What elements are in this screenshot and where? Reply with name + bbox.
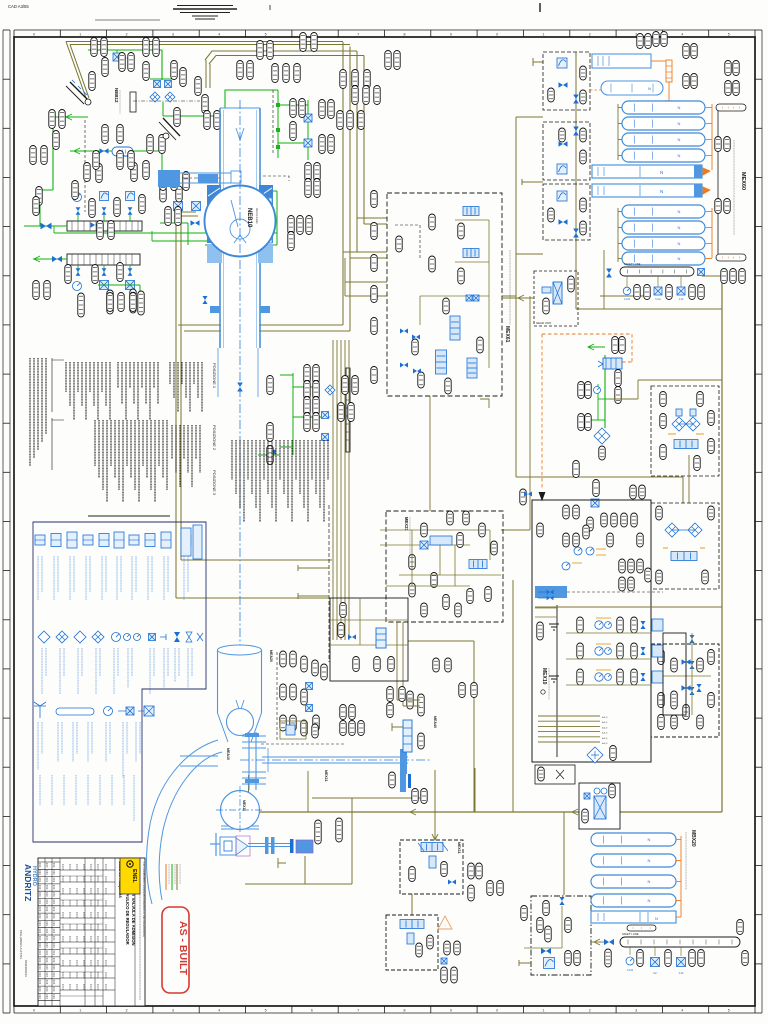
instrument bubble	[612, 337, 618, 354]
instrument bubble	[283, 64, 289, 83]
caption text	[548, 668, 550, 700]
wire black manifold link	[717, 110, 719, 254]
legend text	[73, 556, 75, 592]
wire olive row	[566, 684, 652, 686]
instrument bubble	[577, 669, 583, 685]
rev text	[39, 863, 41, 868]
wire olive left drop	[178, 324, 343, 326]
instrument bubble	[118, 293, 124, 312]
instrument bubble	[445, 658, 451, 672]
instrument bubble	[573, 533, 579, 547]
rev text	[46, 907, 48, 912]
flange hatch left	[207, 185, 221, 243]
list text column	[189, 362, 191, 412]
rev text	[39, 943, 41, 948]
upper ball valve	[227, 709, 254, 736]
directional valve	[671, 552, 697, 561]
logo ENEL	[120, 858, 140, 894]
penstock lower tabs	[210, 306, 220, 313]
rev text	[46, 892, 48, 897]
instrument bubble	[114, 198, 120, 217]
instrument bubble	[409, 555, 415, 570]
instrument bubble	[617, 617, 623, 633]
instrument bubble	[72, 181, 78, 200]
instrument bubble	[593, 480, 599, 497]
svg-text:N: N	[678, 105, 681, 110]
instrument bubble	[267, 41, 273, 60]
instrument bubble	[33, 197, 39, 216]
instrument bubble	[371, 255, 377, 272]
table text	[83, 900, 85, 906]
gauge	[586, 547, 594, 555]
instrument bubble	[485, 587, 491, 602]
table text	[62, 900, 64, 906]
rev text	[39, 878, 41, 883]
wire green right feeder	[604, 355, 606, 428]
table text	[105, 948, 107, 954]
stub ports	[298, 565, 329, 571]
instrument bubble	[445, 378, 451, 394]
valve	[102, 268, 107, 276]
list text column	[267, 440, 269, 494]
pump gauge	[595, 621, 603, 629]
table text	[76, 924, 78, 930]
legend tall symbol	[181, 528, 191, 556]
table text	[62, 936, 64, 942]
table text	[76, 972, 78, 978]
title text block top center	[177, 5, 233, 7]
table text	[62, 864, 64, 870]
instrument bubble	[724, 137, 730, 152]
instrument bubble	[328, 135, 334, 154]
table row line	[60, 965, 115, 967]
rev text	[46, 878, 48, 883]
arrow	[90, 47, 96, 53]
rev text	[46, 885, 48, 890]
rev text	[39, 951, 41, 956]
instrument bubble	[459, 683, 465, 698]
top small revision text	[95, 19, 160, 21]
svg-text:MEX11: MEX11	[242, 800, 246, 811]
instrument bubble	[545, 926, 551, 942]
instrument bubble	[387, 687, 393, 702]
table text	[83, 888, 85, 894]
check valve	[690, 661, 695, 669]
instrument bubble	[658, 693, 664, 708]
flange hatch right lower	[258, 244, 273, 263]
solenoid valve	[174, 202, 183, 211]
instrument bubble	[97, 221, 103, 240]
instrument bubble	[49, 110, 55, 129]
legend text	[187, 648, 189, 688]
instrument bubble	[599, 446, 605, 460]
instrument bubble	[143, 38, 149, 57]
instrument bubble	[587, 517, 593, 531]
instrument bubble	[477, 337, 483, 353]
instrument bubble	[725, 81, 731, 96]
green actuator	[603, 358, 622, 369]
instrument bubble	[41, 146, 47, 165]
wire olive stub	[522, 179, 543, 185]
legend text	[131, 648, 133, 676]
note text column	[29, 358, 31, 466]
svg-text:0: 0	[496, 1009, 498, 1013]
inline filter	[112, 147, 133, 156]
table text	[90, 864, 92, 870]
legend text	[99, 775, 101, 805]
caption text	[685, 832, 687, 890]
arrow into MEX10	[539, 492, 545, 500]
list text column	[89, 362, 91, 392]
wire olive gear connections	[502, 297, 534, 299]
table text	[97, 888, 99, 894]
arrow	[518, 295, 524, 301]
box air valve group 2	[543, 122, 590, 180]
rev text	[39, 914, 41, 919]
instrument bubble	[387, 703, 393, 718]
legend text	[151, 556, 153, 592]
rev row line	[38, 978, 60, 980]
legend square	[149, 634, 156, 641]
table text	[69, 984, 71, 990]
legend text	[63, 648, 65, 676]
legend text	[105, 722, 107, 762]
instrument bubble	[299, 99, 305, 118]
diagonal strainer 1	[70, 82, 88, 100]
flange hatch left lower	[207, 244, 222, 263]
table text	[97, 900, 99, 906]
box MEA30	[330, 598, 408, 681]
list text column	[137, 362, 139, 420]
instrument bubble	[630, 485, 636, 499]
svg-text:N: N	[678, 209, 681, 214]
table text	[105, 936, 107, 942]
table text	[90, 912, 92, 918]
table row line	[60, 941, 115, 943]
wires collector	[691, 633, 693, 715]
gauge	[594, 387, 601, 394]
instrument bubble	[139, 195, 145, 214]
ev block	[652, 671, 663, 683]
wire olive bundle	[336, 340, 338, 640]
svg-text:CH. CURIBAMBA / ESQUEMA HIDRAU: CH. CURIBAMBA / ESQUEMA HIDRAULICO DEL R…	[142, 862, 146, 937]
instrument bubble	[733, 81, 739, 96]
actuator MEA40	[403, 720, 412, 752]
svg-text:2: 2	[589, 33, 591, 37]
instrument bubble	[349, 721, 355, 736]
instrument bubble	[615, 387, 621, 404]
instrument bubble	[409, 867, 415, 882]
svg-text:MEX60: MEX60	[740, 172, 746, 190]
instrument bubble	[537, 523, 543, 537]
filter X	[594, 796, 606, 819]
instrument bubble	[582, 809, 588, 823]
check valve	[641, 673, 646, 681]
valve	[237, 383, 243, 392]
rev text	[53, 863, 55, 868]
list text column	[118, 420, 120, 490]
instrument bubble	[671, 715, 677, 729]
legend text	[41, 722, 43, 754]
solenoid valve	[473, 295, 479, 301]
rev text	[53, 929, 55, 934]
caption text	[733, 140, 735, 235]
arrow	[588, 344, 594, 350]
table text	[83, 936, 85, 942]
caption	[119, 90, 121, 114]
svg-text:1: 1	[79, 33, 81, 37]
servomotor right	[400, 749, 407, 774]
rev text	[53, 921, 55, 926]
instrument bubble	[314, 163, 320, 182]
legend text	[139, 722, 141, 754]
wire green main bus	[195, 90, 278, 116]
instrument bubble	[174, 108, 180, 127]
pump gauge	[595, 673, 603, 681]
air bottle	[622, 149, 705, 162]
table text	[83, 876, 85, 882]
cable line	[538, 736, 600, 738]
wire orange bank lower	[711, 208, 713, 258]
instrument bubble	[708, 693, 714, 708]
setpoint mark	[700, 547, 705, 549]
table text	[90, 960, 92, 966]
valve	[697, 684, 702, 692]
orange connectors vessels	[703, 168, 710, 175]
legend arrow	[160, 634, 166, 640]
arrow	[66, 114, 72, 120]
instrument bubble	[374, 86, 380, 105]
instrument bubble	[202, 95, 208, 114]
valve	[400, 363, 408, 368]
legend text	[101, 556, 103, 600]
legend text	[91, 722, 93, 754]
list text column	[173, 362, 175, 398]
list text column	[323, 440, 325, 522]
instrument bubble	[447, 511, 453, 525]
svg-text:MEX11: MEX11	[324, 770, 328, 782]
list text column	[259, 440, 261, 522]
instrument bubble	[312, 724, 318, 738]
collector bar	[346, 368, 350, 452]
table text	[76, 960, 78, 966]
legend text	[89, 556, 91, 592]
table text	[105, 984, 107, 990]
instrument bubble	[537, 918, 543, 933]
instrument bubble	[421, 789, 427, 804]
instrument bubble	[468, 885, 474, 901]
instrument bubble	[580, 66, 586, 80]
table text	[83, 984, 85, 990]
setpoint mark	[596, 554, 606, 556]
instrument bubble	[183, 172, 189, 191]
svg-text:0-100: 0-100	[627, 969, 634, 972]
instrument bubble	[171, 172, 177, 191]
wire olive row	[566, 632, 652, 634]
rev text	[53, 951, 55, 956]
svg-text:4x1,5: 4x1,5	[602, 722, 608, 724]
safety manifold bottom	[620, 937, 740, 947]
instrument bubble	[36, 187, 42, 206]
instrument bubble	[628, 559, 634, 573]
instrument bubble	[548, 208, 554, 222]
legend diamond	[92, 631, 104, 643]
instrument bubble	[702, 570, 708, 584]
table text	[97, 912, 99, 918]
right ruler strip	[761, 30, 763, 1013]
instrument bubble	[371, 191, 377, 208]
manifold capsule MBX20	[627, 925, 656, 931]
instrument bubble	[409, 583, 415, 597]
air bottle	[591, 854, 676, 867]
instrument bubble	[577, 643, 583, 659]
bottom ruler strip	[14, 1012, 755, 1014]
instrument bubble	[353, 657, 359, 672]
instrument bubble	[577, 617, 583, 633]
instrument bubble	[300, 33, 306, 52]
svg-text:NEB12: NEB12	[114, 88, 119, 103]
legend text	[127, 648, 129, 688]
list text column	[319, 440, 321, 508]
list text column	[130, 420, 132, 478]
wire green small cluster mid	[292, 373, 294, 455]
list text column	[275, 440, 277, 522]
legend text	[77, 648, 79, 694]
rev text	[46, 951, 48, 956]
instrument bubble	[130, 289, 136, 313]
wire drops manifold	[626, 276, 628, 287]
list text column	[122, 420, 124, 502]
table text	[69, 900, 71, 906]
list text column	[299, 440, 301, 494]
air bottle	[622, 221, 705, 234]
instrument bubble	[128, 151, 134, 170]
main vessel MBX20	[591, 911, 676, 923]
instrument bubble	[53, 131, 59, 150]
list text column	[201, 362, 203, 412]
legend gauge	[134, 634, 141, 641]
pressure switch	[651, 958, 660, 967]
legend text	[120, 556, 122, 592]
svg-text:POSIZIONE 3: POSIZIONE 3	[212, 470, 217, 496]
instrument bubble	[297, 216, 303, 235]
rev text	[53, 936, 55, 941]
legend text	[75, 775, 77, 805]
instrument bubble	[611, 513, 617, 527]
list text column	[93, 362, 95, 406]
instrument bubble	[267, 376, 273, 395]
stub	[392, 723, 403, 731]
instrument bubble	[660, 392, 666, 407]
instrument bubble	[619, 337, 625, 354]
instrument bubble	[617, 669, 623, 685]
legend turbine symbol	[34, 702, 46, 718]
instrument bubble	[371, 318, 377, 335]
table text	[105, 924, 107, 930]
setpoint mark	[572, 562, 582, 564]
svg-text:2: 2	[126, 1009, 128, 1013]
instrument bubble	[421, 523, 427, 537]
instrument bubble	[337, 111, 343, 130]
instrument bubble	[609, 784, 615, 798]
instrument bubble	[721, 269, 727, 284]
instrument bubble	[225, 124, 231, 143]
instrument bubble	[433, 658, 439, 672]
wire olive line3	[205, 51, 357, 60]
legend text	[117, 648, 119, 676]
instrument bubble	[143, 161, 149, 180]
solenoid valve	[126, 281, 135, 290]
rev row line	[38, 971, 60, 973]
legend text	[126, 722, 128, 754]
wire olive MEX61 right out	[502, 295, 516, 297]
solenoid valve	[304, 114, 312, 122]
fold mark	[539, 3, 541, 12]
check valve X	[688, 523, 702, 537]
MEA20 instrument cluster	[276, 652, 278, 740]
instrument bubble	[349, 705, 355, 720]
stub	[519, 960, 531, 966]
instrument bubble	[628, 577, 634, 591]
table row line	[60, 881, 115, 883]
wire olive servomotor drop	[307, 771, 309, 812]
legend gauge	[124, 634, 131, 641]
rev text	[53, 973, 55, 978]
rev text	[46, 987, 48, 992]
solenoid valve	[584, 793, 590, 799]
spiral case curves	[159, 752, 222, 900]
wire dash link sphere to instruments	[263, 176, 289, 181]
instrument bubble	[615, 370, 621, 387]
flange stack	[248, 732, 250, 790]
instrument bubble	[340, 603, 346, 618]
svg-text:2: 2	[589, 1009, 591, 1013]
diagonal strainer 2	[163, 118, 180, 136]
wire olive MEX21 drops	[396, 622, 398, 700]
instrument bubble	[671, 658, 677, 672]
legend header text	[88, 515, 170, 517]
note text column	[37, 358, 39, 450]
air bottle	[591, 894, 676, 907]
setpoint mark	[663, 547, 668, 549]
rev text	[39, 936, 41, 941]
svg-text:N: N	[678, 121, 681, 126]
instrument bubble	[645, 568, 651, 582]
instrument bubble	[347, 111, 353, 130]
check valve X	[672, 417, 686, 431]
rev text	[46, 965, 48, 970]
table text	[90, 876, 92, 882]
propeller symbol	[556, 770, 564, 779]
table text	[83, 948, 85, 954]
rev text	[39, 900, 41, 905]
legend text	[147, 556, 149, 600]
instrument bubble	[340, 705, 346, 720]
legend diamond	[38, 631, 50, 643]
legend text	[131, 556, 133, 600]
svg-text:N: N	[648, 879, 651, 884]
svg-text:7: 7	[357, 33, 359, 37]
instrument bubble	[605, 949, 611, 967]
directional valve	[450, 316, 460, 340]
list text column	[169, 362, 171, 384]
instrument bubble	[660, 414, 666, 429]
instrument bubble	[563, 533, 569, 547]
title block table	[38, 858, 145, 1006]
check valve	[690, 687, 695, 695]
instrument bubble	[559, 128, 565, 142]
table text	[90, 972, 92, 978]
